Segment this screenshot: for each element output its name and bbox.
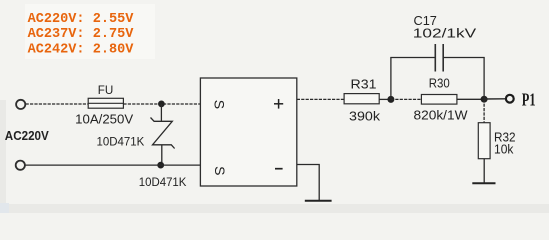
- wire C17 loop right vertical: [483, 58, 485, 100]
- svg-text:10D471K: 10D471K: [97, 135, 145, 149]
- fuse FU: [88, 98, 123, 108]
- svg-text:R31: R31: [351, 78, 377, 92]
- wire bridge + output to R31: [297, 98, 344, 100]
- svg-text:R30: R30: [429, 77, 450, 91]
- svg-text:S: S: [212, 100, 228, 109]
- wire top rail: fuse to bridge: [123, 103, 200, 105]
- svg-text:S: S: [212, 166, 228, 175]
- svg-text:FU: FU: [98, 83, 114, 97]
- wire C17 loop left vertical: [390, 58, 392, 100]
- wire bottom rail: [25, 164, 201, 166]
- svg-text:AC220V: 2.55V: AC220V: 2.55V: [28, 12, 135, 27]
- wire R32 to ground: [483, 159, 485, 183]
- wire R31 to node A: [379, 98, 391, 100]
- bridge rectifier box: [200, 78, 296, 186]
- node B (R30/R32/P1 junction): [481, 96, 488, 103]
- node junction bottom of varistor: [157, 162, 164, 169]
- capacitor C17: [435, 44, 443, 72]
- svg-text:102/1kV: 102/1kV: [413, 27, 477, 41]
- wire C17 loop top right segment: [443, 57, 485, 59]
- wire node B to P1 terminal: [484, 98, 505, 100]
- varistor 10D471K: [151, 104, 175, 165]
- svg-text:P1: P1: [522, 89, 536, 109]
- svg-text:820k/1W: 820k/1W: [414, 108, 468, 122]
- terminal input top (live): [16, 100, 25, 109]
- wire top rail: terminal to fuse: [26, 103, 89, 105]
- wire R30 to node B: [457, 98, 484, 100]
- node A (R31/R30/C17 junction): [387, 96, 394, 103]
- svg-text:10A/250V: 10A/250V: [75, 113, 134, 127]
- svg-text:390k: 390k: [349, 108, 381, 123]
- svg-text:AC242V: 2.80V: AC242V: 2.80V: [28, 43, 135, 58]
- bridge pin label +: [274, 99, 283, 109]
- node junction top of varistor: [158, 101, 165, 108]
- ground (below R32): [472, 182, 495, 184]
- resistor R30: [421, 95, 457, 105]
- svg-text:AC237V: 2.75V: AC237V: 2.75V: [28, 27, 135, 42]
- svg-text:10D471K: 10D471K: [139, 175, 187, 189]
- terminal input bottom (neutral): [16, 161, 25, 170]
- terminal P1: [506, 95, 514, 103]
- wire bridge - output to ground: [297, 165, 319, 201]
- wire node A to R30: [391, 98, 422, 100]
- wire node B down to R32: [483, 99, 485, 123]
- svg-text:10k: 10k: [494, 142, 514, 156]
- resistor R32: [478, 123, 490, 159]
- bridge pin label -: [275, 168, 283, 170]
- svg-text:AC220V: AC220V: [5, 128, 49, 143]
- ground (below bridge - output): [305, 200, 332, 202]
- resistor R31: [344, 94, 379, 104]
- wire C17 loop top left segment: [390, 57, 435, 59]
